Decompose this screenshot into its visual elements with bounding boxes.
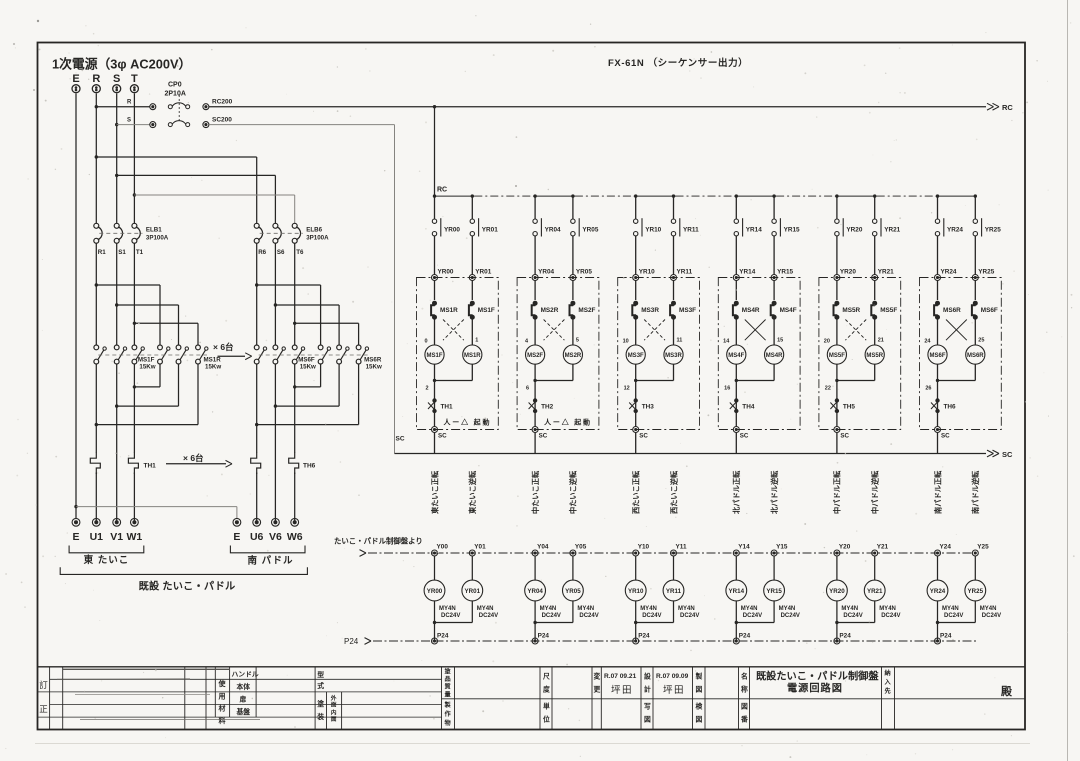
svg-text:Y01: Y01 [474,544,486,551]
svg-text:中たいこ正転: 中たいこ正転 [531,470,540,514]
svg-text:MS4F: MS4F [728,353,744,359]
svg-text:1: 1 [475,338,478,344]
svg-text:MY4N: MY4N [640,606,657,612]
svg-text:1次電源（3φ AC200V）: 1次電源（3φ AC200V） [52,57,191,72]
svg-text:MY4N: MY4N [879,606,896,612]
svg-text:YR15: YR15 [777,269,793,276]
svg-text:既設 たいこ・パドル: 既設 たいこ・パドル [139,580,236,593]
svg-text:料: 料 [219,716,226,725]
svg-text:SC200: SC200 [212,117,232,124]
svg-text:単: 単 [543,702,550,711]
svg-text:S1: S1 [118,249,126,256]
svg-text:T1: T1 [136,249,144,256]
svg-text:製: 製 [444,701,452,709]
svg-text:MS4R: MS4R [742,307,760,314]
svg-text:製: 製 [695,672,703,681]
svg-text:W1: W1 [127,531,143,543]
svg-text:YR04: YR04 [538,269,554,276]
svg-text:MS6R: MS6R [943,307,961,314]
svg-text:DC24V: DC24V [743,613,762,619]
svg-text:TH2: TH2 [541,404,554,411]
svg-text:× 6台: × 6台 [213,342,234,352]
svg-text:SC: SC [740,433,749,440]
svg-text:納: 納 [885,669,891,677]
svg-text:MS1R: MS1R [464,353,481,359]
svg-text:YR11: YR11 [666,588,682,595]
svg-text:中パドル逆転: 中パドル逆転 [871,470,880,514]
svg-text:MY4N: MY4N [577,606,594,612]
svg-text:6: 6 [526,386,529,392]
svg-text:YR01: YR01 [465,588,481,595]
svg-text:DC24V: DC24V [680,613,699,619]
svg-text:YR10: YR10 [639,269,655,276]
svg-text:15Kw: 15Kw [205,364,221,371]
svg-text:YR21: YR21 [867,588,883,595]
svg-text:DC24V: DC24V [843,613,862,619]
svg-text:YR10: YR10 [645,227,661,234]
svg-text:P24: P24 [839,633,851,640]
svg-text:10: 10 [623,339,629,345]
svg-text:15: 15 [777,338,783,344]
svg-text:面: 面 [331,701,337,709]
svg-text:YR04: YR04 [545,227,561,234]
svg-text:CP0: CP0 [168,82,182,89]
svg-text:S6: S6 [277,249,285,256]
svg-text:0: 0 [424,339,427,345]
svg-text:称: 称 [741,685,748,694]
svg-text:TH5: TH5 [843,404,856,411]
svg-text:MS1F: MS1F [426,353,442,359]
svg-text:3P100A: 3P100A [306,235,329,242]
svg-text:2P10A: 2P10A [165,91,186,98]
svg-text:25: 25 [978,338,984,344]
svg-text:MS1F: MS1F [138,357,155,364]
svg-text:26: 26 [925,386,931,392]
svg-text:20: 20 [824,339,830,345]
svg-text:北パドル正転: 北パドル正転 [732,470,741,514]
svg-text:装: 装 [317,712,324,721]
svg-text:DC24V: DC24V [881,613,900,619]
svg-text:YR01: YR01 [475,269,491,276]
svg-text:Y05: Y05 [575,544,587,551]
svg-text:Y00: Y00 [437,544,449,551]
svg-text:MS2F: MS2F [578,307,595,314]
svg-text:MS6F: MS6F [298,357,315,364]
svg-text:MS3R: MS3R [665,353,682,359]
svg-text:V1: V1 [110,531,123,543]
svg-text:尺: 尺 [543,673,550,681]
svg-text:11: 11 [677,338,683,344]
svg-text:YR25: YR25 [978,269,994,276]
svg-text:YR00: YR00 [444,227,460,234]
svg-text:Y10: Y10 [638,544,650,551]
svg-text:SC: SC [840,433,849,440]
svg-text:DC24V: DC24V [781,613,800,619]
svg-text:15Kw: 15Kw [300,364,316,371]
svg-text:T: T [131,73,138,85]
svg-text:MS6R: MS6R [364,357,382,364]
svg-text:YR15: YR15 [784,227,800,234]
svg-text:Y15: Y15 [776,544,788,551]
svg-text:DC24V: DC24V [441,613,460,619]
svg-text:SC: SC [396,436,405,443]
svg-text:T6: T6 [296,249,304,256]
svg-text:MS4R: MS4R [766,353,783,359]
svg-text:YR10: YR10 [628,588,644,595]
svg-text:SC: SC [438,433,447,440]
svg-text:Y21: Y21 [877,544,889,551]
svg-text:YR11: YR11 [683,227,699,234]
svg-text:型: 型 [317,670,324,679]
svg-text:S: S [127,118,131,124]
svg-text:MS5R: MS5R [842,307,860,314]
svg-text:E: E [72,531,79,543]
svg-text:MY4N: MY4N [678,606,695,612]
svg-text:U1: U1 [90,531,104,543]
svg-text:訂: 訂 [39,680,48,690]
svg-text:東たいこ逆転: 東たいこ逆転 [468,470,477,515]
svg-text:DC24V: DC24V [479,613,498,619]
svg-text:YR24: YR24 [947,227,963,234]
svg-text:計: 計 [644,685,651,694]
svg-text:Y11: Y11 [676,544,687,551]
svg-text:設: 設 [644,672,651,681]
svg-text:TH1: TH1 [441,404,454,411]
svg-text:東たいこ正転: 東たいこ正転 [430,470,439,515]
svg-text:坪田: 坪田 [611,684,633,696]
svg-text:MS6R: MS6R [967,353,984,359]
svg-text:外: 外 [331,694,337,702]
svg-text:DC24V: DC24V [944,613,963,619]
svg-text:TH1: TH1 [144,463,157,470]
svg-text:先: 先 [885,687,892,695]
svg-text:R6: R6 [258,249,266,256]
svg-text:FX-61N （シーケンサー出力）: FX-61N （シーケンサー出力） [608,57,748,69]
svg-text:中たいこ逆転: 中たいこ逆転 [569,470,578,514]
svg-text:12: 12 [624,386,630,392]
svg-text:2: 2 [425,386,428,392]
svg-text:YR24: YR24 [930,588,946,595]
svg-text:R1: R1 [98,249,106,256]
svg-text:図: 図 [696,685,703,694]
svg-text:MY4N: MY4N [439,606,456,612]
svg-text:TH6: TH6 [944,404,957,411]
svg-text:変: 変 [594,672,601,681]
svg-text:SC: SC [941,433,950,440]
svg-text:MS2R: MS2R [565,353,582,359]
svg-text:度: 度 [543,685,550,694]
svg-text:番: 番 [740,715,748,724]
svg-text:坪田: 坪田 [663,684,685,696]
svg-text:殿: 殿 [1000,685,1013,698]
svg-text:YR00: YR00 [438,269,454,276]
svg-text:R: R [127,100,132,106]
svg-text:物: 物 [445,719,452,727]
svg-text:U6: U6 [250,531,264,543]
svg-text:DC24V: DC24V [542,613,561,619]
svg-text:YR11: YR11 [677,269,693,276]
svg-text:ELB1: ELB1 [146,227,162,234]
svg-text:15Kw: 15Kw [139,364,155,371]
svg-text:SC: SC [539,433,548,440]
svg-text:MS3R: MS3R [641,307,659,314]
svg-text:P24: P24 [638,633,650,640]
svg-text:扉: 扉 [240,695,247,704]
svg-text:YR14: YR14 [746,227,762,234]
svg-text:DC24V: DC24V [642,613,661,619]
svg-text:北パドル逆転: 北パドル逆転 [770,470,779,514]
svg-text:YR05: YR05 [565,588,581,595]
svg-text:P24: P24 [344,637,359,646]
svg-text:21: 21 [878,338,884,344]
svg-text:YR20: YR20 [829,588,845,595]
svg-text:DC24V: DC24V [579,613,598,619]
svg-text:MY4N: MY4N [980,606,997,612]
svg-text:P24: P24 [739,633,751,640]
svg-text:E: E [72,73,79,85]
svg-text:ELB6: ELB6 [306,227,322,234]
svg-text:YR01: YR01 [482,227,498,234]
svg-text:MS5R: MS5R [866,353,883,359]
svg-text:MS4F: MS4F [780,307,797,314]
svg-text:YR15: YR15 [766,588,782,595]
svg-text:MS2R: MS2R [541,307,559,314]
svg-text:SC: SC [1002,450,1013,459]
svg-text:P24: P24 [538,633,550,640]
svg-text:図: 図 [696,715,703,724]
svg-text:MS6F: MS6F [981,307,998,314]
svg-text:R.07 09.21: R.07 09.21 [604,673,637,680]
svg-text:MS6F: MS6F [929,353,945,359]
svg-text:5: 5 [576,338,579,344]
svg-text:Y20: Y20 [839,544,851,551]
svg-text:用: 用 [219,692,226,700]
svg-text:更: 更 [594,686,601,694]
svg-text:YR00: YR00 [427,588,443,595]
svg-text:品: 品 [445,675,451,683]
svg-text:既設たいこ・パドル制御盤: 既設たいこ・パドル制御盤 [756,670,879,683]
svg-text:RC: RC [1002,103,1013,112]
svg-text:たいこ・パドル制御盤より: たいこ・パドル制御盤より [334,537,423,546]
svg-text:YR20: YR20 [840,269,856,276]
svg-text:MS1R: MS1R [204,357,222,364]
svg-text:22: 22 [825,386,831,392]
svg-text:写: 写 [644,703,651,711]
svg-text:Y25: Y25 [977,544,989,551]
svg-text:東 たいこ: 東 たいこ [83,554,130,566]
svg-text:中パドル正転: 中パドル正転 [833,470,842,514]
svg-text:YR14: YR14 [729,588,745,595]
svg-text:YR25: YR25 [985,227,1001,234]
svg-text:MS2F: MS2F [527,353,543,359]
svg-text:南パドル逆転: 南パドル逆転 [971,470,980,514]
svg-text:MS1F: MS1F [478,307,495,314]
svg-text:P24: P24 [940,633,952,640]
svg-text:15Kw: 15Kw [366,364,382,371]
svg-text:YR14: YR14 [739,269,755,276]
svg-text:YR21: YR21 [878,269,894,276]
svg-text:基盤: 基盤 [236,707,251,716]
svg-text:Y04: Y04 [537,544,549,551]
svg-text:14: 14 [723,339,730,345]
svg-text:Y24: Y24 [940,544,952,551]
svg-text:P24: P24 [437,633,449,640]
svg-text:TH4: TH4 [742,404,755,411]
svg-text:材: 材 [218,704,226,713]
svg-text:YR05: YR05 [576,269,592,276]
svg-text:内: 内 [331,709,337,717]
svg-text:図: 図 [644,715,651,724]
svg-text:図: 図 [741,702,748,711]
svg-text:3P100A: 3P100A [146,235,169,242]
svg-text:ハンドル: ハンドル [232,671,259,679]
svg-text:質: 質 [445,683,451,691]
svg-text:24: 24 [924,339,931,345]
svg-text:南パドル正転: 南パドル正転 [933,470,942,514]
svg-text:西たいこ逆転: 西たいこ逆転 [669,470,678,514]
svg-text:MY4N: MY4N [477,606,494,612]
svg-text:人ー△ 起動: 人ー△ 起動 [444,418,492,427]
svg-text:MY4N: MY4N [741,606,758,612]
svg-text:S: S [113,73,120,85]
svg-text:式: 式 [317,681,324,690]
svg-text:人ー△ 起動: 人ー△ 起動 [544,418,592,427]
svg-text:入: 入 [884,679,892,686]
svg-text:塗: 塗 [317,699,324,708]
svg-text:MY4N: MY4N [841,606,858,612]
svg-text:YR05: YR05 [582,227,598,234]
svg-text:南 パドル: 南 パドル [248,555,294,567]
svg-text:R.07 09.09: R.07 09.09 [656,673,689,680]
svg-text:MS3F: MS3F [628,353,644,359]
svg-text:DC24V: DC24V [982,613,1001,619]
svg-text:MY4N: MY4N [540,606,557,612]
svg-text:本体: 本体 [237,682,251,691]
svg-text:RC200: RC200 [212,99,233,106]
svg-text:YR25: YR25 [968,588,984,595]
svg-text:TH6: TH6 [303,463,316,470]
svg-text:SC: SC [639,433,648,440]
svg-text:使: 使 [218,679,227,688]
svg-text:W6: W6 [287,531,303,543]
svg-text:R: R [92,73,100,85]
svg-text:電源回路図: 電源回路図 [787,682,843,695]
svg-text:位: 位 [543,715,550,724]
svg-text:YR04: YR04 [527,588,543,595]
svg-text:E: E [233,531,240,543]
svg-text:TH3: TH3 [642,404,655,411]
svg-text:MS5F: MS5F [880,307,897,314]
svg-text:名: 名 [741,672,748,681]
svg-text:16: 16 [724,386,730,392]
svg-text:× 6台: × 6台 [183,453,204,463]
svg-text:RC: RC [437,187,447,194]
svg-text:面: 面 [331,715,337,723]
svg-text:YR20: YR20 [846,227,862,234]
svg-text:YR21: YR21 [884,227,900,234]
svg-text:YR24: YR24 [941,269,957,276]
svg-text:MS3F: MS3F [679,307,696,314]
svg-text:MY4N: MY4N [942,606,959,612]
svg-text:Y14: Y14 [738,544,750,551]
svg-text:検: 検 [696,702,703,711]
svg-text:塗: 塗 [445,668,452,676]
svg-text:MS5F: MS5F [829,353,845,359]
svg-text:MY4N: MY4N [779,606,796,612]
svg-text:西たいこ正転: 西たいこ正転 [632,470,641,514]
svg-text:作: 作 [445,710,452,718]
svg-text:V6: V6 [269,531,282,543]
svg-text:MS1R: MS1R [440,307,458,314]
svg-text:正: 正 [39,704,48,714]
svg-text:量: 量 [445,691,452,699]
